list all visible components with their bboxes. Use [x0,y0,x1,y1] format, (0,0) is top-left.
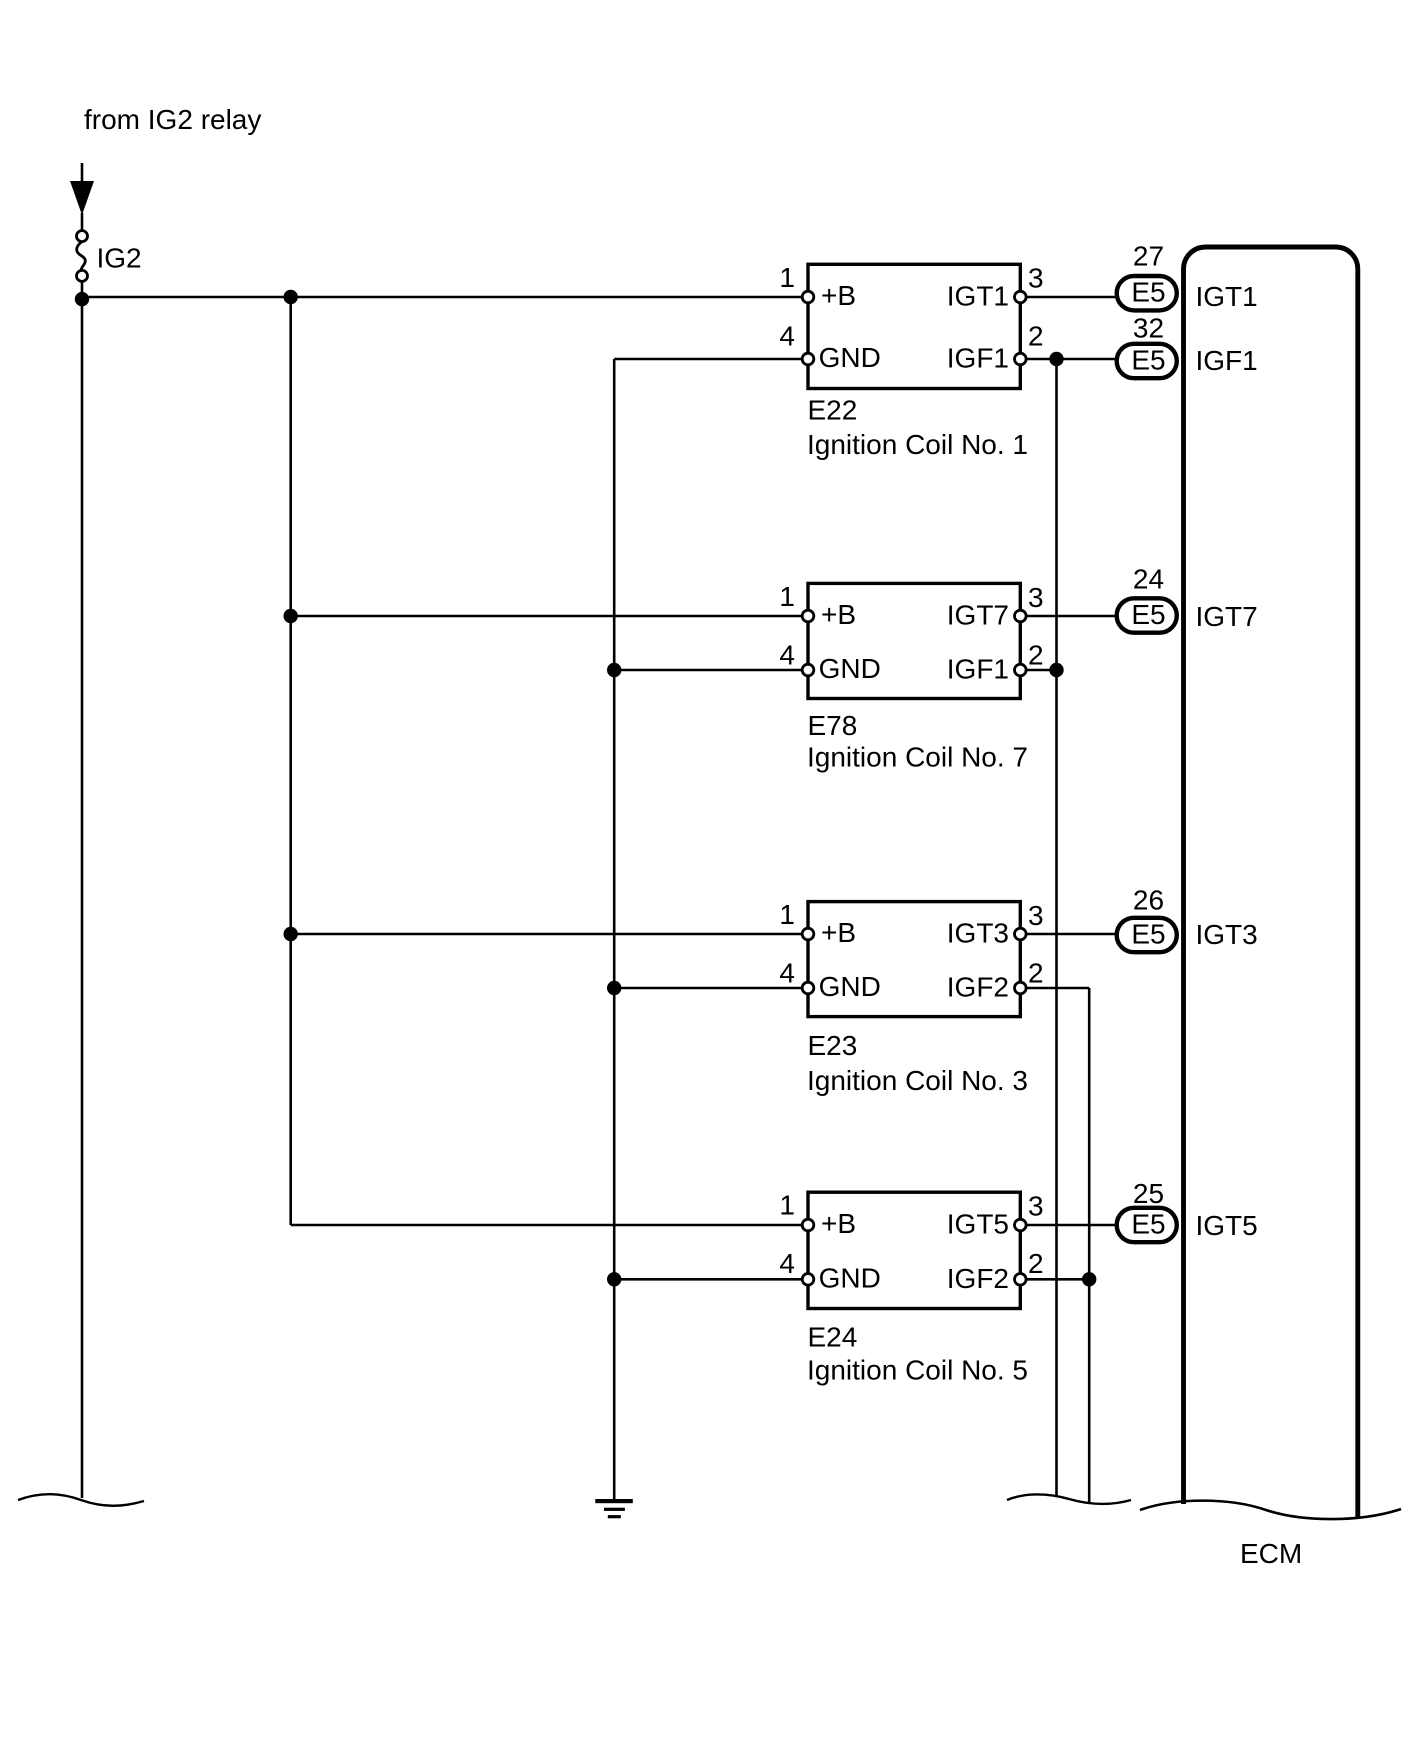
svg-text:25: 25 [1133,1178,1164,1209]
svg-text:E22: E22 [808,395,858,426]
svg-text:1: 1 [779,899,795,930]
svg-text:Ignition Coil No. 7: Ignition Coil No. 7 [807,742,1028,773]
svg-text:27: 27 [1133,240,1164,271]
svg-text:ECM: ECM [1240,1538,1302,1569]
svg-text:IG2: IG2 [97,242,142,273]
svg-text:3: 3 [1028,1191,1044,1222]
svg-text:2: 2 [1028,958,1044,989]
svg-text:IGT1: IGT1 [1196,281,1258,312]
svg-text:GND: GND [819,653,881,684]
svg-text:E5: E5 [1131,919,1165,950]
svg-text:IGT7: IGT7 [1196,601,1258,632]
svg-text:24: 24 [1133,564,1164,595]
svg-text:E5: E5 [1131,277,1165,308]
svg-text:IGT3: IGT3 [947,918,1009,949]
svg-text:4: 4 [779,320,795,351]
svg-text:GND: GND [819,971,881,1002]
svg-text:IGT5: IGT5 [1196,1210,1258,1241]
svg-text:IGT3: IGT3 [1196,919,1258,950]
svg-text:E78: E78 [808,710,858,741]
svg-text:IGF1: IGF1 [947,343,1009,374]
svg-text:4: 4 [779,639,795,670]
svg-text:+B: +B [821,599,856,630]
svg-text:E23: E23 [808,1030,858,1061]
svg-text:+B: +B [821,917,856,948]
svg-text:1: 1 [779,1190,795,1221]
svg-text:32: 32 [1133,312,1164,343]
svg-text:1: 1 [779,262,795,293]
svg-text:2: 2 [1028,320,1044,351]
svg-text:E5: E5 [1131,1209,1165,1240]
svg-text:IGT1: IGT1 [947,281,1009,312]
svg-text:4: 4 [779,1248,795,1279]
svg-text:IGT7: IGT7 [947,600,1009,631]
svg-text:3: 3 [1028,582,1044,613]
svg-text:GND: GND [819,1262,881,1293]
svg-text:IGF2: IGF2 [947,1263,1009,1294]
svg-text:IGF1: IGF1 [947,654,1009,685]
svg-text:Ignition Coil No. 3: Ignition Coil No. 3 [807,1065,1028,1096]
svg-text:E5: E5 [1131,599,1165,630]
svg-text:2: 2 [1028,1248,1044,1279]
svg-text:Ignition Coil No. 1: Ignition Coil No. 1 [807,429,1028,460]
svg-text:4: 4 [779,958,795,989]
svg-text:GND: GND [819,342,881,373]
svg-text:Ignition Coil No. 5: Ignition Coil No. 5 [807,1355,1028,1386]
svg-text:from IG2 relay: from IG2 relay [84,104,261,135]
svg-text:26: 26 [1133,885,1164,916]
svg-text:2: 2 [1028,639,1044,670]
svg-text:1: 1 [779,581,795,612]
svg-text:3: 3 [1028,900,1044,931]
svg-text:IGF2: IGF2 [947,972,1009,1003]
svg-text:3: 3 [1028,263,1044,294]
svg-text:IGT5: IGT5 [947,1209,1009,1240]
svg-text:+B: +B [821,280,856,311]
svg-text:IGF1: IGF1 [1196,345,1258,376]
svg-text:E24: E24 [808,1322,858,1353]
svg-text:+B: +B [821,1208,856,1239]
svg-text:E5: E5 [1131,345,1165,376]
